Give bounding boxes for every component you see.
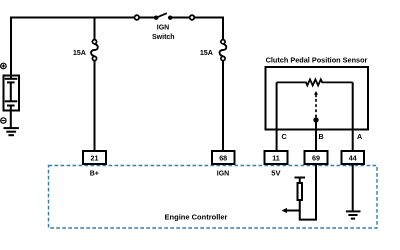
wire fuse F1 branch drop	[94, 18, 96, 40]
battery B1	[4, 76, 20, 129]
svg-text:69: 69	[312, 154, 320, 163]
clutch pedal position sensor box	[266, 67, 369, 130]
wire resistor bottom to pin 69 net	[300, 165, 316, 220]
svg-text:A: A	[357, 132, 362, 141]
svg-text:Engine Controller: Engine Controller	[165, 213, 228, 222]
svg-text:5V: 5V	[271, 168, 280, 177]
wire sensor pin C drop	[276, 82, 278, 151]
svg-text:15A: 15A	[200, 48, 213, 57]
wire pin 44 to ground	[352, 165, 354, 211]
sensor wiper arrow	[313, 91, 318, 123]
wire fuse F2 to pin 68	[222, 60, 224, 151]
battery - terminal mark	[1, 118, 6, 123]
5V supply terminal bar	[295, 177, 306, 179]
IGN switch	[135, 13, 195, 20]
wire fuse F1 to pin 21	[94, 60, 96, 151]
svg-text:Clutch Pedal Position Sensor: Clutch Pedal Position Sensor	[266, 56, 368, 65]
pin 21	[83, 151, 106, 164]
pull-up resistor	[298, 183, 303, 200]
svg-text:IGN: IGN	[217, 170, 229, 177]
fuse F2 15A	[220, 40, 227, 61]
ground under pin 44	[346, 211, 361, 218]
pin 69	[305, 151, 328, 164]
svg-text:IGN: IGN	[157, 24, 169, 31]
pin 44	[342, 151, 365, 164]
pin 68	[212, 151, 235, 164]
svg-text:15A: 15A	[73, 48, 86, 57]
wire sensor pin B (wiper) to pin 69	[315, 120, 317, 151]
svg-text:C: C	[282, 132, 287, 141]
svg-text:B+: B+	[90, 170, 99, 177]
battery + terminal mark	[1, 63, 7, 69]
engine controller dashed box	[49, 166, 378, 229]
svg-text:B: B	[319, 132, 324, 141]
wire top bus from battery to switch	[11, 17, 156, 19]
svg-text:68: 68	[219, 154, 227, 163]
wire sensor pin A drop	[352, 82, 354, 151]
sensor resistor track (zigzag)	[277, 79, 353, 85]
svg-text:Switch: Switch	[152, 34, 175, 41]
fuse F1 15A	[91, 40, 98, 61]
svg-text:11: 11	[272, 154, 280, 163]
pin 11	[265, 151, 288, 164]
wire left drop from top bus to battery	[10, 17, 12, 80]
svg-text:21: 21	[91, 154, 99, 163]
signal arrow to internal circuit	[282, 208, 300, 213]
wire terminal to pull-up resistor	[299, 178, 301, 184]
ground under battery	[4, 128, 19, 135]
wire from switch to corner and down to fuse F2	[170, 18, 223, 40]
svg-text:44: 44	[349, 154, 357, 163]
